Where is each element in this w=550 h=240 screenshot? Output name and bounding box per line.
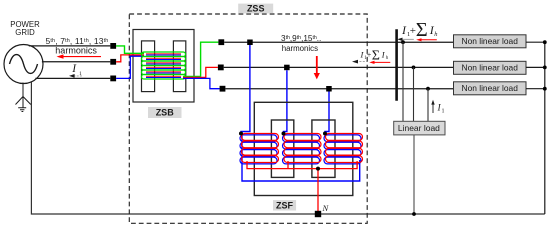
block Non linear load 1: [454, 35, 527, 48]
junction dot winding 1: [239, 132, 243, 136]
label 3th 9th 15th harmonics: [281, 34, 321, 53]
bus bar: [395, 29, 398, 100]
terminal square B-in: [110, 59, 116, 65]
terminal square tap A: [247, 40, 253, 46]
label 5th 7th 11th 13th harmonics: [46, 36, 109, 55]
wire green A into ZSB: [116, 46, 144, 53]
coil ZSB winding: [142, 52, 186, 79]
junction dot load 1: [543, 40, 547, 44]
wire loads to right bus: [526, 42, 545, 214]
wire green A out of ZSB: [183, 42, 218, 76]
wire red collector: [247, 161, 357, 214]
wire blue interconnect U: [242, 135, 360, 181]
coil ZSF winding 3: [324, 134, 363, 164]
svg-text:Linear load: Linear load: [398, 123, 440, 133]
svg-text:harmonics: harmonics: [282, 43, 318, 53]
svg-text:Σ: Σ: [416, 19, 428, 41]
label I1 grid current: [71, 63, 82, 77]
wire linear load drops: [403, 42, 428, 121]
svg-text:harmonics: harmonics: [55, 46, 97, 56]
wire red B out of ZSB: [183, 67, 218, 77]
label ZSF: [273, 200, 296, 210]
wire phase C left: [35, 77, 110, 79]
arrow I1 left black: [69, 74, 83, 78]
junction dot winding 3: [323, 132, 327, 136]
svg-text:Σ: Σ: [372, 48, 380, 63]
svg-text:Non linear load: Non linear load: [462, 63, 519, 73]
terminal square A-out: [218, 39, 224, 45]
svg-text:Non linear load: Non linear load: [462, 36, 519, 46]
wire phase A right: [224, 41, 453, 43]
wire linear load to neutral: [413, 135, 415, 214]
arrow black after bar: [397, 38, 414, 41]
wire blue C into ZSB: [116, 56, 144, 78]
AC source G1: [4, 45, 43, 84]
coil ZSF winding 1: [240, 134, 279, 164]
junction dot C linear: [426, 87, 430, 91]
junction dot B linear: [412, 66, 416, 70]
svg-text:ZSB: ZSB: [156, 108, 175, 118]
wire phase A left: [29, 45, 111, 47]
block Non linear load 2: [454, 61, 527, 74]
svg-text:h: h: [434, 31, 437, 38]
junction dot load 3: [543, 87, 547, 91]
dashed box ZSS: [129, 14, 367, 223]
coil ZSF winding 2: [283, 134, 322, 164]
label I1+sum Ih before bar: [360, 48, 389, 63]
wire blue C out of ZSB: [183, 78, 220, 88]
arrow harmonics down red: [314, 56, 320, 79]
terminal square B-out: [218, 65, 224, 71]
node POWER GRID label: [10, 20, 40, 37]
arrow black small before bar: [352, 60, 367, 64]
block Non linear load 3: [454, 82, 527, 95]
wire blue tap A to ZSF: [241, 45, 250, 134]
terminal square C-in: [110, 76, 116, 82]
junction dot A linear: [401, 40, 405, 44]
arrow red small before bar: [369, 61, 390, 64]
arrow I1 up linear: [431, 100, 434, 113]
terminal square tap B: [284, 65, 290, 71]
svg-text:GRID: GRID: [15, 28, 35, 37]
terminal square N: [315, 211, 321, 217]
terminal square C-out: [220, 86, 226, 92]
transformer ZSF core: [254, 102, 352, 195]
terminal square A-in: [110, 43, 116, 49]
junction dot winding 2: [282, 132, 286, 136]
wire phase C right: [225, 88, 453, 90]
label ZSS: [238, 4, 273, 14]
terminal square tap C: [326, 86, 332, 92]
wire neutral from source: [31, 81, 544, 214]
block Linear load: [394, 121, 445, 135]
transformer ZSB core: [133, 30, 194, 103]
label I1 linear: [437, 104, 445, 115]
arrow harmonics left red: [57, 54, 102, 58]
label I1+sum Ih after bar: [401, 19, 438, 41]
label ZSB: [148, 107, 182, 118]
wire blue tap B to ZSF: [284, 70, 287, 133]
junction dot load 2: [543, 66, 547, 70]
svg-text:1: 1: [442, 109, 445, 115]
ground: [16, 83, 31, 112]
wire phase B right: [224, 66, 454, 68]
wire red B into ZSB: [116, 55, 144, 62]
svg-text:ZSF: ZSF: [276, 200, 294, 210]
arrow red after bar: [416, 38, 437, 41]
svg-text:Non linear load: Non linear load: [462, 83, 519, 93]
wire blue tap C to ZSF: [325, 92, 329, 134]
junction dot neutral linear: [412, 212, 416, 216]
wire phase B left: [42, 61, 110, 63]
svg-text:ZSS: ZSS: [247, 3, 265, 13]
junction dot red collector: [316, 167, 320, 171]
